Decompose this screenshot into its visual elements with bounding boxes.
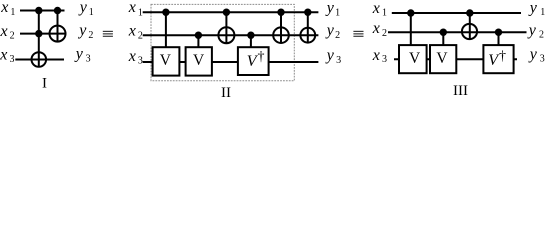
wire q3 circuit II: [143, 61, 319, 63]
svg-text:3: 3: [336, 55, 341, 66]
svg-text:2: 2: [335, 30, 340, 41]
gate box V2: [186, 47, 212, 75]
cnot vertical: [469, 13, 471, 39]
control dot V2 on q2: [440, 29, 447, 36]
svg-text:V: V: [436, 50, 448, 67]
wire q1 circuit I: [20, 10, 65, 12]
control dot V1 on q1: [162, 9, 169, 16]
svg-text:II: II: [221, 85, 231, 101]
control dot Vdg on q2: [495, 29, 502, 36]
svg-text:x: x: [128, 22, 136, 39]
gate box Vdagger: [238, 47, 269, 75]
control dot cnot3 q1: [304, 9, 311, 16]
control dot V2 on q2: [195, 32, 202, 39]
svg-text:x: x: [128, 48, 136, 65]
controlled-V1 vertical: [410, 13, 412, 46]
gate box V1: [153, 47, 180, 75]
svg-text:x: x: [0, 0, 8, 16]
wire q1 circuit III: [392, 12, 521, 14]
CNOT target q2: [462, 24, 477, 39]
svg-text:V: V: [409, 50, 421, 67]
controlled-V2 vertical: [197, 35, 199, 48]
control dot V1 on q1: [407, 9, 414, 16]
control dot cnot q1: [466, 9, 473, 16]
svg-text:V: V: [160, 52, 172, 69]
svg-text:y: y: [528, 46, 538, 63]
svg-text:3: 3: [138, 55, 143, 66]
svg-text:y: y: [325, 0, 335, 16]
svg-text:3: 3: [10, 54, 15, 65]
svg-text:3: 3: [382, 54, 387, 65]
control dot toffoli q2: [35, 30, 42, 37]
svg-text:y: y: [528, 0, 538, 16]
svg-text:†: †: [499, 49, 506, 64]
gate box Vdagger: [483, 45, 513, 73]
control dot cnot q1: [54, 7, 61, 14]
cnot3 vertical: [307, 12, 309, 43]
svg-text:†: †: [258, 50, 265, 65]
svg-text:2: 2: [539, 29, 544, 40]
svg-text:1: 1: [335, 7, 340, 18]
controlled-V2 vertical: [442, 32, 444, 46]
svg-text:x: x: [0, 23, 8, 40]
control dot cnot2 q1: [277, 9, 284, 16]
svg-text:x: x: [372, 20, 380, 37]
cnot2 vertical: [280, 12, 282, 43]
CNOT target toffoli q3: [32, 52, 47, 67]
controlled-V1 vertical: [165, 12, 167, 48]
control dot cnot1 q1: [223, 9, 230, 16]
controlled-Vdg vertical: [498, 32, 500, 46]
svg-text:x: x: [128, 0, 136, 16]
svg-text:1: 1: [10, 7, 15, 18]
svg-text:1: 1: [382, 8, 387, 19]
CNOT target cnot3 q2: [300, 28, 315, 43]
equivalence sign 1: [103, 31, 113, 37]
CNOT target cnot1 q2: [218, 27, 234, 43]
wire q2 circuit II: [143, 34, 319, 36]
wire q2 circuit I: [20, 33, 67, 35]
CNOT target q2: [50, 26, 66, 42]
svg-text:V: V: [193, 52, 205, 69]
svg-text:1: 1: [89, 7, 94, 18]
svg-text:y: y: [325, 22, 335, 39]
svg-text:x: x: [0, 46, 7, 63]
svg-text:y: y: [77, 22, 87, 39]
wire q1 circuit II: [143, 11, 319, 13]
svg-text:2: 2: [10, 30, 15, 41]
svg-text:3: 3: [86, 53, 91, 64]
svg-text:1: 1: [540, 7, 545, 18]
wire q2 circuit III: [388, 31, 527, 33]
svg-text:III: III: [453, 83, 468, 99]
control dot Vdg on q2: [247, 32, 254, 39]
gate box V1: [399, 45, 427, 73]
svg-text:2: 2: [382, 28, 387, 39]
svg-text:1: 1: [138, 7, 143, 18]
svg-text:y: y: [527, 22, 537, 39]
controlled-Vdg vertical: [250, 35, 252, 48]
wire q3 circuit I: [15, 59, 64, 61]
svg-text:y: y: [325, 47, 335, 64]
svg-text:2: 2: [88, 30, 93, 41]
svg-text:x: x: [372, 47, 380, 64]
gate box V2: [430, 45, 456, 73]
wire q3 circuit III: [394, 58, 517, 60]
svg-text:2: 2: [138, 31, 143, 42]
wire toffoli vertical: [38, 11, 40, 67]
svg-text:y: y: [78, 0, 88, 16]
svg-text:3: 3: [540, 54, 545, 65]
svg-text:y: y: [74, 45, 84, 62]
dashed grouping box: [151, 4, 294, 80]
svg-text:x: x: [372, 0, 380, 17]
control dot toffoli q1: [35, 7, 42, 14]
equivalence sign 2: [353, 31, 363, 37]
wire cnot vertical: [57, 11, 59, 42]
CNOT target cnot2 q2: [273, 27, 289, 43]
cnot1 vertical: [225, 12, 227, 43]
svg-text:I: I: [42, 76, 47, 92]
